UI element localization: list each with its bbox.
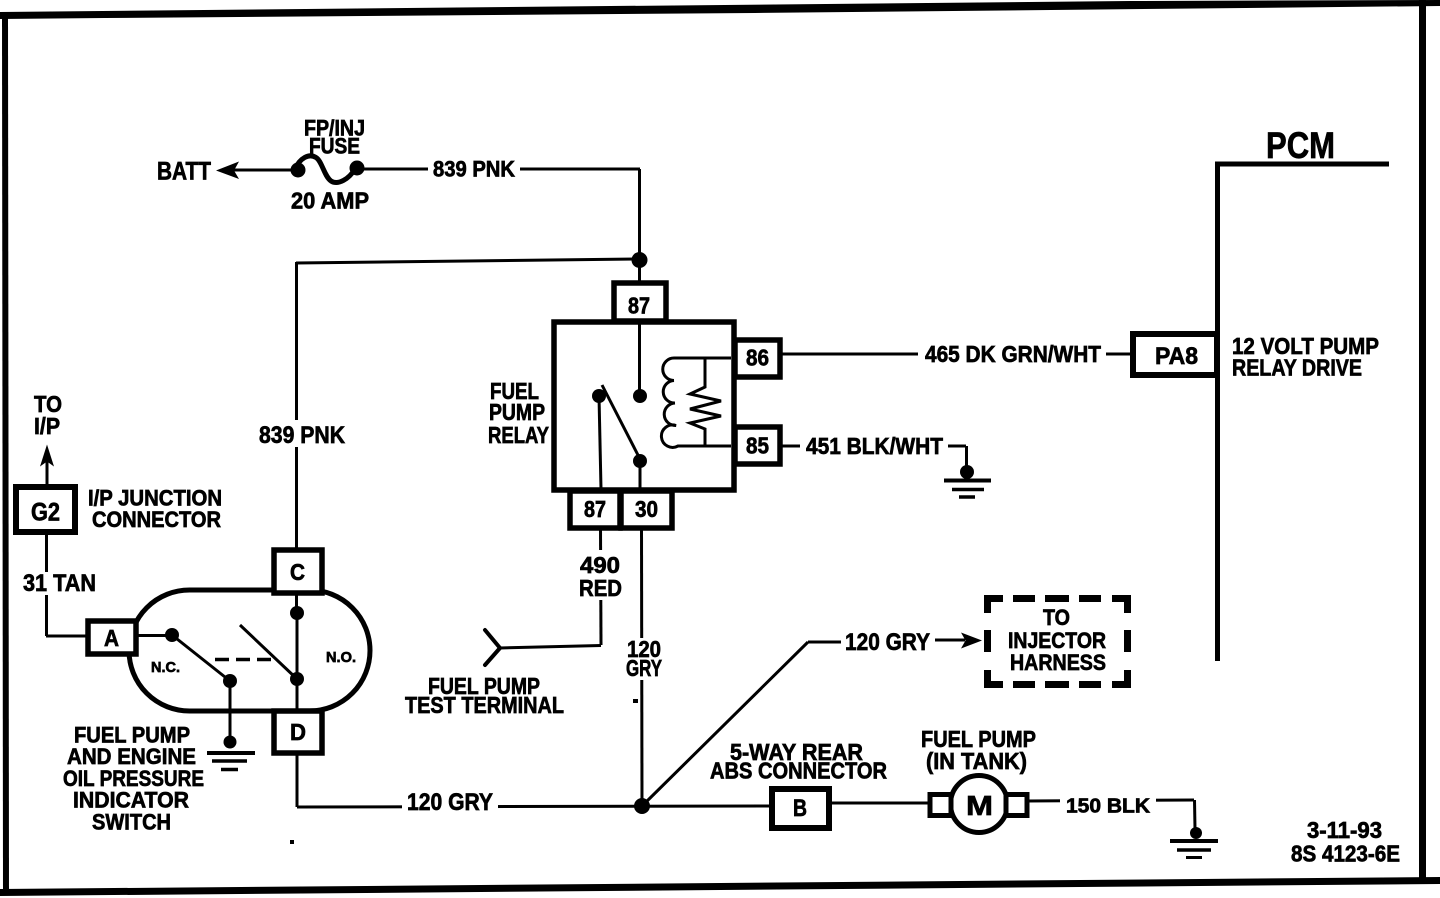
svg-text:120 GRY: 120 GRY [845, 629, 930, 656]
svg-text:20 AMP: 20 AMP [291, 188, 369, 214]
svg-text:GRY: GRY [626, 655, 662, 681]
svg-text:465 DK GRN/WHT: 465 DK GRN/WHT [925, 341, 1101, 367]
svg-text:31 TAN: 31 TAN [23, 570, 96, 597]
svg-text:RELAY: RELAY [488, 422, 549, 448]
svg-text:SWITCH: SWITCH [92, 810, 171, 835]
svg-text:B: B [793, 795, 807, 822]
svg-text:150 BLK: 150 BLK [1066, 796, 1151, 818]
svg-text:3-11-93: 3-11-93 [1307, 817, 1382, 843]
svg-text:RED: RED [579, 575, 622, 601]
svg-text:839 PNK: 839 PNK [259, 422, 346, 449]
svg-text:TO: TO [1043, 605, 1070, 630]
svg-text:839 PNK: 839 PNK [433, 157, 515, 182]
svg-text:A: A [104, 625, 119, 651]
svg-text:87: 87 [584, 496, 606, 522]
svg-text:G2: G2 [31, 499, 60, 527]
svg-text:86: 86 [746, 345, 769, 371]
svg-text:FUSE: FUSE [309, 134, 360, 159]
svg-text:C: C [290, 559, 305, 585]
svg-text:N.C.: N.C. [151, 659, 180, 676]
svg-text:I/P: I/P [34, 413, 60, 439]
svg-text:TEST TERMINAL: TEST TERMINAL [405, 692, 564, 718]
svg-text:N.O.: N.O. [326, 649, 356, 666]
svg-text:CONNECTOR: CONNECTOR [92, 507, 221, 532]
svg-text:BATT: BATT [157, 158, 211, 186]
svg-text:87: 87 [628, 293, 650, 319]
svg-text:PA8: PA8 [1155, 343, 1198, 370]
svg-text:85: 85 [746, 433, 769, 459]
svg-text:120 GRY: 120 GRY [407, 789, 493, 816]
svg-text:D: D [290, 719, 306, 745]
svg-text:HARNESS: HARNESS [1010, 650, 1106, 675]
svg-text:PCM: PCM [1266, 125, 1335, 166]
svg-text:M: M [966, 790, 993, 821]
svg-text:451 BLK/WHT: 451 BLK/WHT [806, 433, 943, 459]
svg-text:(IN TANK): (IN TANK) [926, 748, 1027, 774]
svg-text:8S 4123-6E: 8S 4123-6E [1291, 841, 1400, 867]
svg-text:ABS CONNECTOR: ABS CONNECTOR [710, 758, 887, 784]
svg-text:RELAY DRIVE: RELAY DRIVE [1232, 355, 1362, 381]
svg-text:30: 30 [635, 496, 658, 522]
